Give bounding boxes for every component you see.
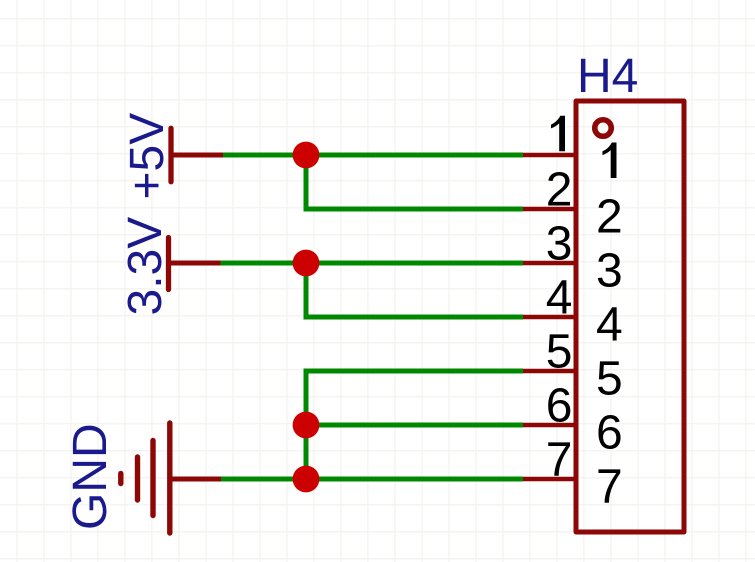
connector H4 body (576, 101, 684, 532)
junction at pin3 row (293, 250, 320, 277)
svg-text:4: 4 (596, 299, 623, 352)
svg-text:GND: GND (64, 423, 117, 530)
wire +5V to pin 1 (223, 153, 523, 158)
svg-text:2: 2 (596, 191, 623, 244)
svg-text:4: 4 (546, 272, 573, 325)
svg-text:3: 3 (596, 245, 623, 298)
svg-text:5: 5 (596, 353, 623, 406)
power symbol 3.3V (169, 238, 221, 290)
pin number 1 (551, 116, 565, 152)
pin 2 stub (523, 207, 577, 212)
wire 3.3V to pin 3 (221, 261, 524, 266)
pin 5 stub (523, 369, 577, 374)
pin 1 stub (523, 153, 577, 158)
junction at pin1 row (293, 142, 320, 169)
pin 3 stub (523, 261, 577, 266)
pin 4 stub (523, 315, 577, 320)
pin 1 marker circle (595, 120, 612, 137)
svg-text:5: 5 (546, 326, 573, 379)
junction at pin7 row (293, 466, 320, 493)
svg-text:+5V: +5V (121, 113, 174, 200)
svg-text:H4: H4 (577, 50, 638, 103)
junction at pin6 row (293, 412, 320, 439)
pin 6 stub (523, 423, 577, 428)
svg-text:3.3V: 3.3V (119, 217, 172, 316)
ground symbol GND (121, 423, 221, 533)
wire GND to pin 7 (221, 477, 523, 482)
svg-text:7: 7 (596, 461, 623, 514)
svg-text:3: 3 (546, 218, 573, 271)
pin name 1 (603, 143, 617, 179)
svg-text:2: 2 (546, 164, 573, 217)
svg-text:6: 6 (596, 407, 623, 460)
wire vertical pin1 to pin2 row (306, 155, 523, 209)
wire vertical GND riser (306, 371, 523, 479)
wire pin 6 branch (306, 423, 523, 428)
wire vertical pin3 to pin4 row (306, 263, 523, 317)
power symbol +5V (171, 128, 223, 181)
svg-text:6: 6 (546, 380, 573, 433)
pin 7 stub (523, 477, 577, 482)
svg-text:7: 7 (546, 434, 573, 487)
